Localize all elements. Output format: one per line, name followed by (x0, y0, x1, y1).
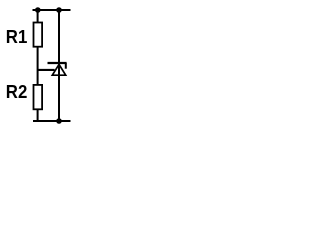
wire: left branch vertical (37, 10, 39, 121)
wire: gate tap from divider midpoint (38, 69, 55, 71)
node: top-right junction dot (56, 7, 62, 13)
thyristor cathode bar bent tail (65, 63, 67, 69)
wire: top rail (33, 9, 71, 11)
svg-text:R1: R1 (6, 26, 28, 47)
resistor R1 body (34, 23, 43, 47)
svg-text:R2: R2 (6, 81, 28, 102)
thyristor triangle (anode) (52, 64, 65, 75)
thyristor cathode bar (48, 62, 67, 64)
wire: bottom rail (33, 120, 71, 122)
node: top-left junction dot (35, 7, 41, 13)
resistor R2 body (34, 85, 43, 109)
background (0, 0, 91, 140)
wire: right branch vertical (thyristor branch) (58, 10, 60, 121)
node: bottom-right junction dot (56, 118, 62, 124)
